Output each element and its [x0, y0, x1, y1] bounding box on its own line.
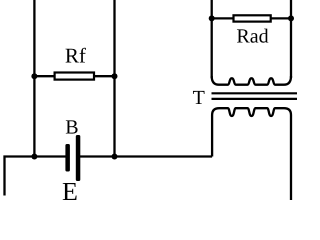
svg-text:T: T: [193, 87, 205, 109]
svg-text:B: B: [65, 117, 78, 139]
svg-text:Rf: Rf: [65, 44, 86, 68]
svg-text:Rad: Rad: [236, 26, 268, 48]
svg-text:E: E: [62, 177, 78, 200]
